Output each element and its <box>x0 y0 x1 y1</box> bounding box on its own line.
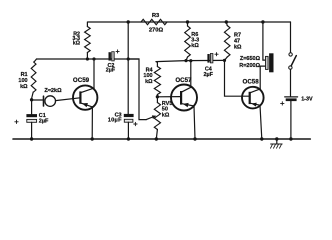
ground chassis symbol <box>276 139 278 144</box>
svg-text:2µF: 2µF <box>203 72 213 78</box>
wire OC59 collector node (horizontal) <box>37 58 140 60</box>
capacitor C1 2uF <box>26 114 37 117</box>
svg-text:270Ω: 270Ω <box>149 28 164 34</box>
transistor OC59 <box>73 85 97 109</box>
earphone Z=650 R=200 <box>263 22 266 60</box>
svg-text:OC58: OC58 <box>243 78 260 85</box>
capacitor C2 2uF <box>109 52 111 60</box>
junction node R2-bottom <box>86 57 89 60</box>
resistor R1 100k <box>32 59 37 99</box>
svg-text:1-3V: 1-3V <box>301 96 313 102</box>
wire C1 to bottom rail <box>31 122 33 139</box>
wire decoupled supply line (R3 junction down to C3) <box>127 22 129 114</box>
junction node OC59-collector <box>92 57 95 60</box>
junction R7 top rail <box>225 20 228 23</box>
junction earphone top rail <box>261 20 264 23</box>
switch S1 <box>290 22 292 53</box>
svg-text:kΩ: kΩ <box>145 79 153 85</box>
wire R4 top to R6/C4/R7 junction <box>156 60 225 61</box>
svg-text:Z≈2kΩ: Z≈2kΩ <box>44 88 62 94</box>
wire OC58 collector riser to earphone <box>260 66 265 89</box>
resistor R6 3.3k <box>186 22 188 61</box>
wire top supply rail <box>88 21 291 23</box>
wire mic to OC59 base <box>56 98 81 101</box>
wire battery to bottom rail <box>290 101 292 139</box>
svg-text:2µF: 2µF <box>39 118 49 124</box>
junction C4/R7/OC58-base <box>223 59 226 62</box>
svg-text:R7: R7 <box>234 32 241 38</box>
junction C1 at rail <box>30 137 33 140</box>
svg-text:kΩ: kΩ <box>20 84 28 90</box>
svg-text:kΩ: kΩ <box>234 45 242 51</box>
junction OC57 collector <box>189 59 192 62</box>
svg-text:10µF: 10µF <box>108 118 122 124</box>
junction C2 wire crossing <box>127 57 130 60</box>
capacitor C3 10uF <box>124 114 134 117</box>
svg-text:2µF: 2µF <box>106 68 116 74</box>
resistor R3 270 ohm <box>141 19 167 24</box>
svg-text:R3: R3 <box>152 13 160 19</box>
resistor R4 100k <box>156 62 157 97</box>
wire bottom supply rail <box>13 138 310 140</box>
transistor OC57 <box>171 85 197 111</box>
svg-text:OC57: OC57 <box>175 77 192 84</box>
wire C3 to bottom rail <box>127 122 129 139</box>
wire OC59 emitter to rail <box>91 107 93 139</box>
svg-text:Z=650Ω: Z=650Ω <box>240 56 261 62</box>
junction OC57 emitter at rail <box>193 137 196 140</box>
svg-text:R=200Ω: R=200Ω <box>239 63 260 69</box>
junction R6 bottom <box>184 59 187 62</box>
junction OC59 emitter at rail <box>91 137 94 140</box>
junction C3 at rail <box>127 137 130 140</box>
svg-text:kΩ: kΩ <box>162 112 170 118</box>
resistor R7 47k <box>225 22 228 60</box>
wiper arrow into RV5 <box>146 117 154 120</box>
wire OC59 collector riser <box>93 59 95 88</box>
battery 1.3V <box>285 96 298 98</box>
node mic/R1/C1 junction <box>30 98 33 101</box>
wire OC58 emitter to rail <box>260 105 262 139</box>
junction RV5 at rail <box>155 137 158 140</box>
capacitor C4 2uF <box>207 54 209 63</box>
resistor R2 3.3k <box>86 22 88 59</box>
wire OC57 base <box>157 96 180 98</box>
junction battery at rail <box>289 137 292 140</box>
transistor OC58 <box>242 87 264 109</box>
junction OC58 emitter at rail <box>260 137 263 140</box>
junction R6 top rail <box>186 20 189 23</box>
wire OC57 collector riser <box>190 61 192 88</box>
wire OC57 emitter to rail <box>194 106 195 139</box>
svg-text:kΩ: kΩ <box>73 41 81 47</box>
wire C2 node to volume wiper (down at x139) <box>128 59 146 120</box>
svg-text:47: 47 <box>234 39 240 45</box>
junction R4/RV5/OC57-base <box>156 95 159 98</box>
junction top rail / R3 left <box>127 20 130 23</box>
microphone earpiece Z=2k <box>32 99 43 101</box>
wire junction down to OC58 base <box>225 60 250 96</box>
svg-text:kΩ: kΩ <box>191 43 199 49</box>
potentiometer RV5 50k <box>156 97 157 139</box>
svg-text:OC59: OC59 <box>73 77 90 84</box>
wire node to C1 <box>31 100 33 114</box>
